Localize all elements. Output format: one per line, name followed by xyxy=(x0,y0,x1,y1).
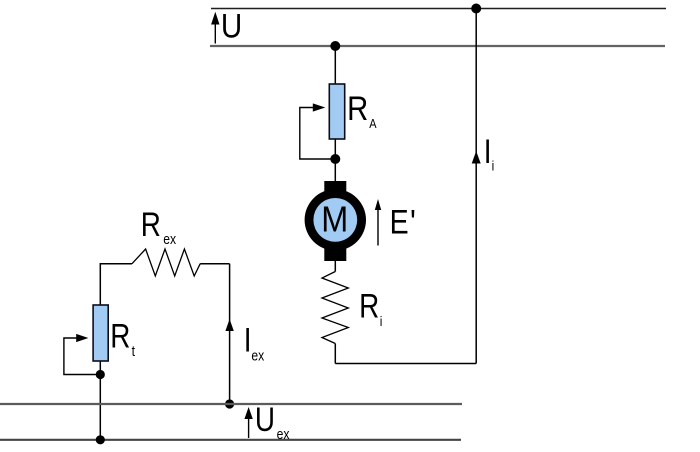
motor M (DC machine) xyxy=(305,181,366,261)
wiper arrow of RA xyxy=(300,103,336,159)
svg-text:ex: ex xyxy=(163,231,176,247)
svg-text:t: t xyxy=(132,343,136,359)
svg-text:': ' xyxy=(410,203,416,241)
resistor Rt (adjustable) xyxy=(93,305,108,361)
wire from node A down to RA xyxy=(334,46,336,84)
svg-text:R: R xyxy=(110,317,130,355)
wire Rex right xyxy=(200,263,229,265)
arrow Iex xyxy=(225,319,233,331)
bottom wire to right rail xyxy=(335,363,476,365)
node below Rt xyxy=(96,370,105,379)
svg-text:U: U xyxy=(221,7,242,45)
svg-text:I: I xyxy=(244,321,252,359)
arrow Ii (on right rail) xyxy=(472,151,481,164)
wiper arrow of Rt xyxy=(64,334,100,375)
top supply rail (negative) xyxy=(210,45,665,47)
arrow Uex xyxy=(244,407,252,438)
svg-text:i: i xyxy=(380,313,383,329)
resistor Ri (zigzag) xyxy=(322,272,348,344)
svg-text:R: R xyxy=(141,205,161,243)
right vertical rail xyxy=(475,9,477,364)
svg-text:M: M xyxy=(321,200,348,240)
left circuit: wire from Rex left to Rt xyxy=(100,264,132,305)
wire RA to motor xyxy=(334,139,336,182)
svg-text:ex: ex xyxy=(277,426,290,442)
resistor Rex (zigzag) xyxy=(132,249,200,276)
svg-text:I: I xyxy=(484,132,492,170)
node B (below RA) xyxy=(330,154,340,164)
node on bottom rail 2 xyxy=(96,435,105,444)
node on top rail xyxy=(471,4,481,14)
svg-text:R: R xyxy=(359,287,379,325)
bottom rail 2 xyxy=(0,439,461,441)
right vertical wire of excitation loop xyxy=(229,264,231,404)
svg-text:E: E xyxy=(390,203,409,241)
arrow E' xyxy=(375,199,381,246)
resistor RA (adjustable) xyxy=(329,84,344,139)
svg-text:ex: ex xyxy=(251,348,264,364)
node on bottom rail 1 xyxy=(225,399,234,408)
wire Ri down xyxy=(334,344,336,364)
top supply rail (positive) xyxy=(211,8,666,10)
node A (junction on negative rail) xyxy=(330,41,340,51)
svg-text:A: A xyxy=(369,116,376,131)
svg-text:R: R xyxy=(347,89,368,128)
wire Rt bottom down to bottom rail xyxy=(99,361,101,440)
wire motor to Ri xyxy=(334,261,336,272)
svg-text:i: i xyxy=(492,157,495,173)
svg-text:U: U xyxy=(255,400,275,438)
arrow U xyxy=(211,12,219,44)
bottom rail 1 xyxy=(0,403,462,405)
